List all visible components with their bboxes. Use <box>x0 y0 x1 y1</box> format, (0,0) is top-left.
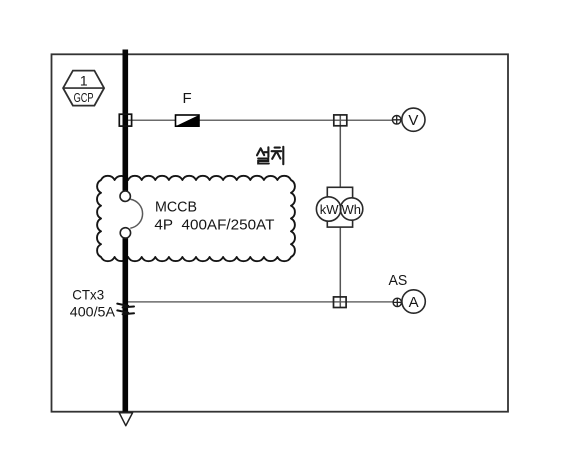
CT marks on bus (CTx3) <box>117 304 134 308</box>
ammeter A <box>402 290 425 313</box>
MCCB contact circles and blade arc <box>130 199 142 228</box>
drawing frame border <box>52 54 509 411</box>
svg-text:F: F <box>183 90 192 107</box>
svg-text:4P 400AF/250AT: 4P 400AF/250AT <box>154 218 274 234</box>
svg-text:GCP: GCP <box>74 91 94 105</box>
junction square on bus (fuse tap) <box>119 114 131 126</box>
wire: ammeter line (node at y=301.9) <box>128 301 393 303</box>
voltmeter terminal <box>392 116 401 125</box>
wire: kWh meter drop (vertical) <box>339 115 341 188</box>
kWh meter <box>327 187 352 227</box>
svg-text:CTx3: CTx3 <box>72 287 104 303</box>
wire: fuse/voltmeter line (node at y=120.3) <box>128 119 392 121</box>
svg-text:400/5A: 400/5A <box>70 303 116 319</box>
main bus (thick vertical feeder) <box>123 50 129 192</box>
revision cloud around MCCB <box>97 176 295 261</box>
svg-text:A: A <box>409 294 419 311</box>
svg-text:AS: AS <box>389 272 408 289</box>
bottom feeder arrow <box>119 413 132 426</box>
hexagon GCP symbol <box>63 71 104 106</box>
ammeter terminal <box>393 298 401 306</box>
voltmeter V <box>402 108 425 131</box>
svg-text:1: 1 <box>80 73 88 89</box>
label: 설치 (installed) <box>257 147 283 164</box>
junction square (V tap / kWh tap) <box>334 115 347 126</box>
svg-text:Wh: Wh <box>342 202 362 217</box>
fuse F <box>176 115 200 126</box>
svg-text:kW: kW <box>320 202 340 217</box>
svg-text:MCCB: MCCB <box>155 199 197 215</box>
svg-text:V: V <box>408 112 418 129</box>
junction square (A tap) <box>334 297 347 308</box>
